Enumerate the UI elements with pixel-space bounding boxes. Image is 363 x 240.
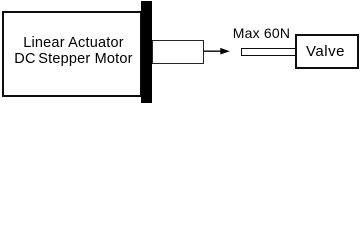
valve stem rod <box>241 48 296 56</box>
block: Linear Actuator / DC Stepper Motor box <box>2 11 142 97</box>
wire: arrow shaft <box>203 50 221 52</box>
label: Valve <box>306 43 345 60</box>
actuator end plate (thick black bar) <box>141 1 153 103</box>
piston rod block <box>152 40 204 64</box>
block: Valve box <box>295 34 359 69</box>
label: Linear Actuator / DC Stepper Motor text <box>5 35 143 68</box>
arrowhead <box>220 48 230 55</box>
label: Max 60N <box>233 25 290 41</box>
arrow (force direction) <box>0 0 363 104</box>
